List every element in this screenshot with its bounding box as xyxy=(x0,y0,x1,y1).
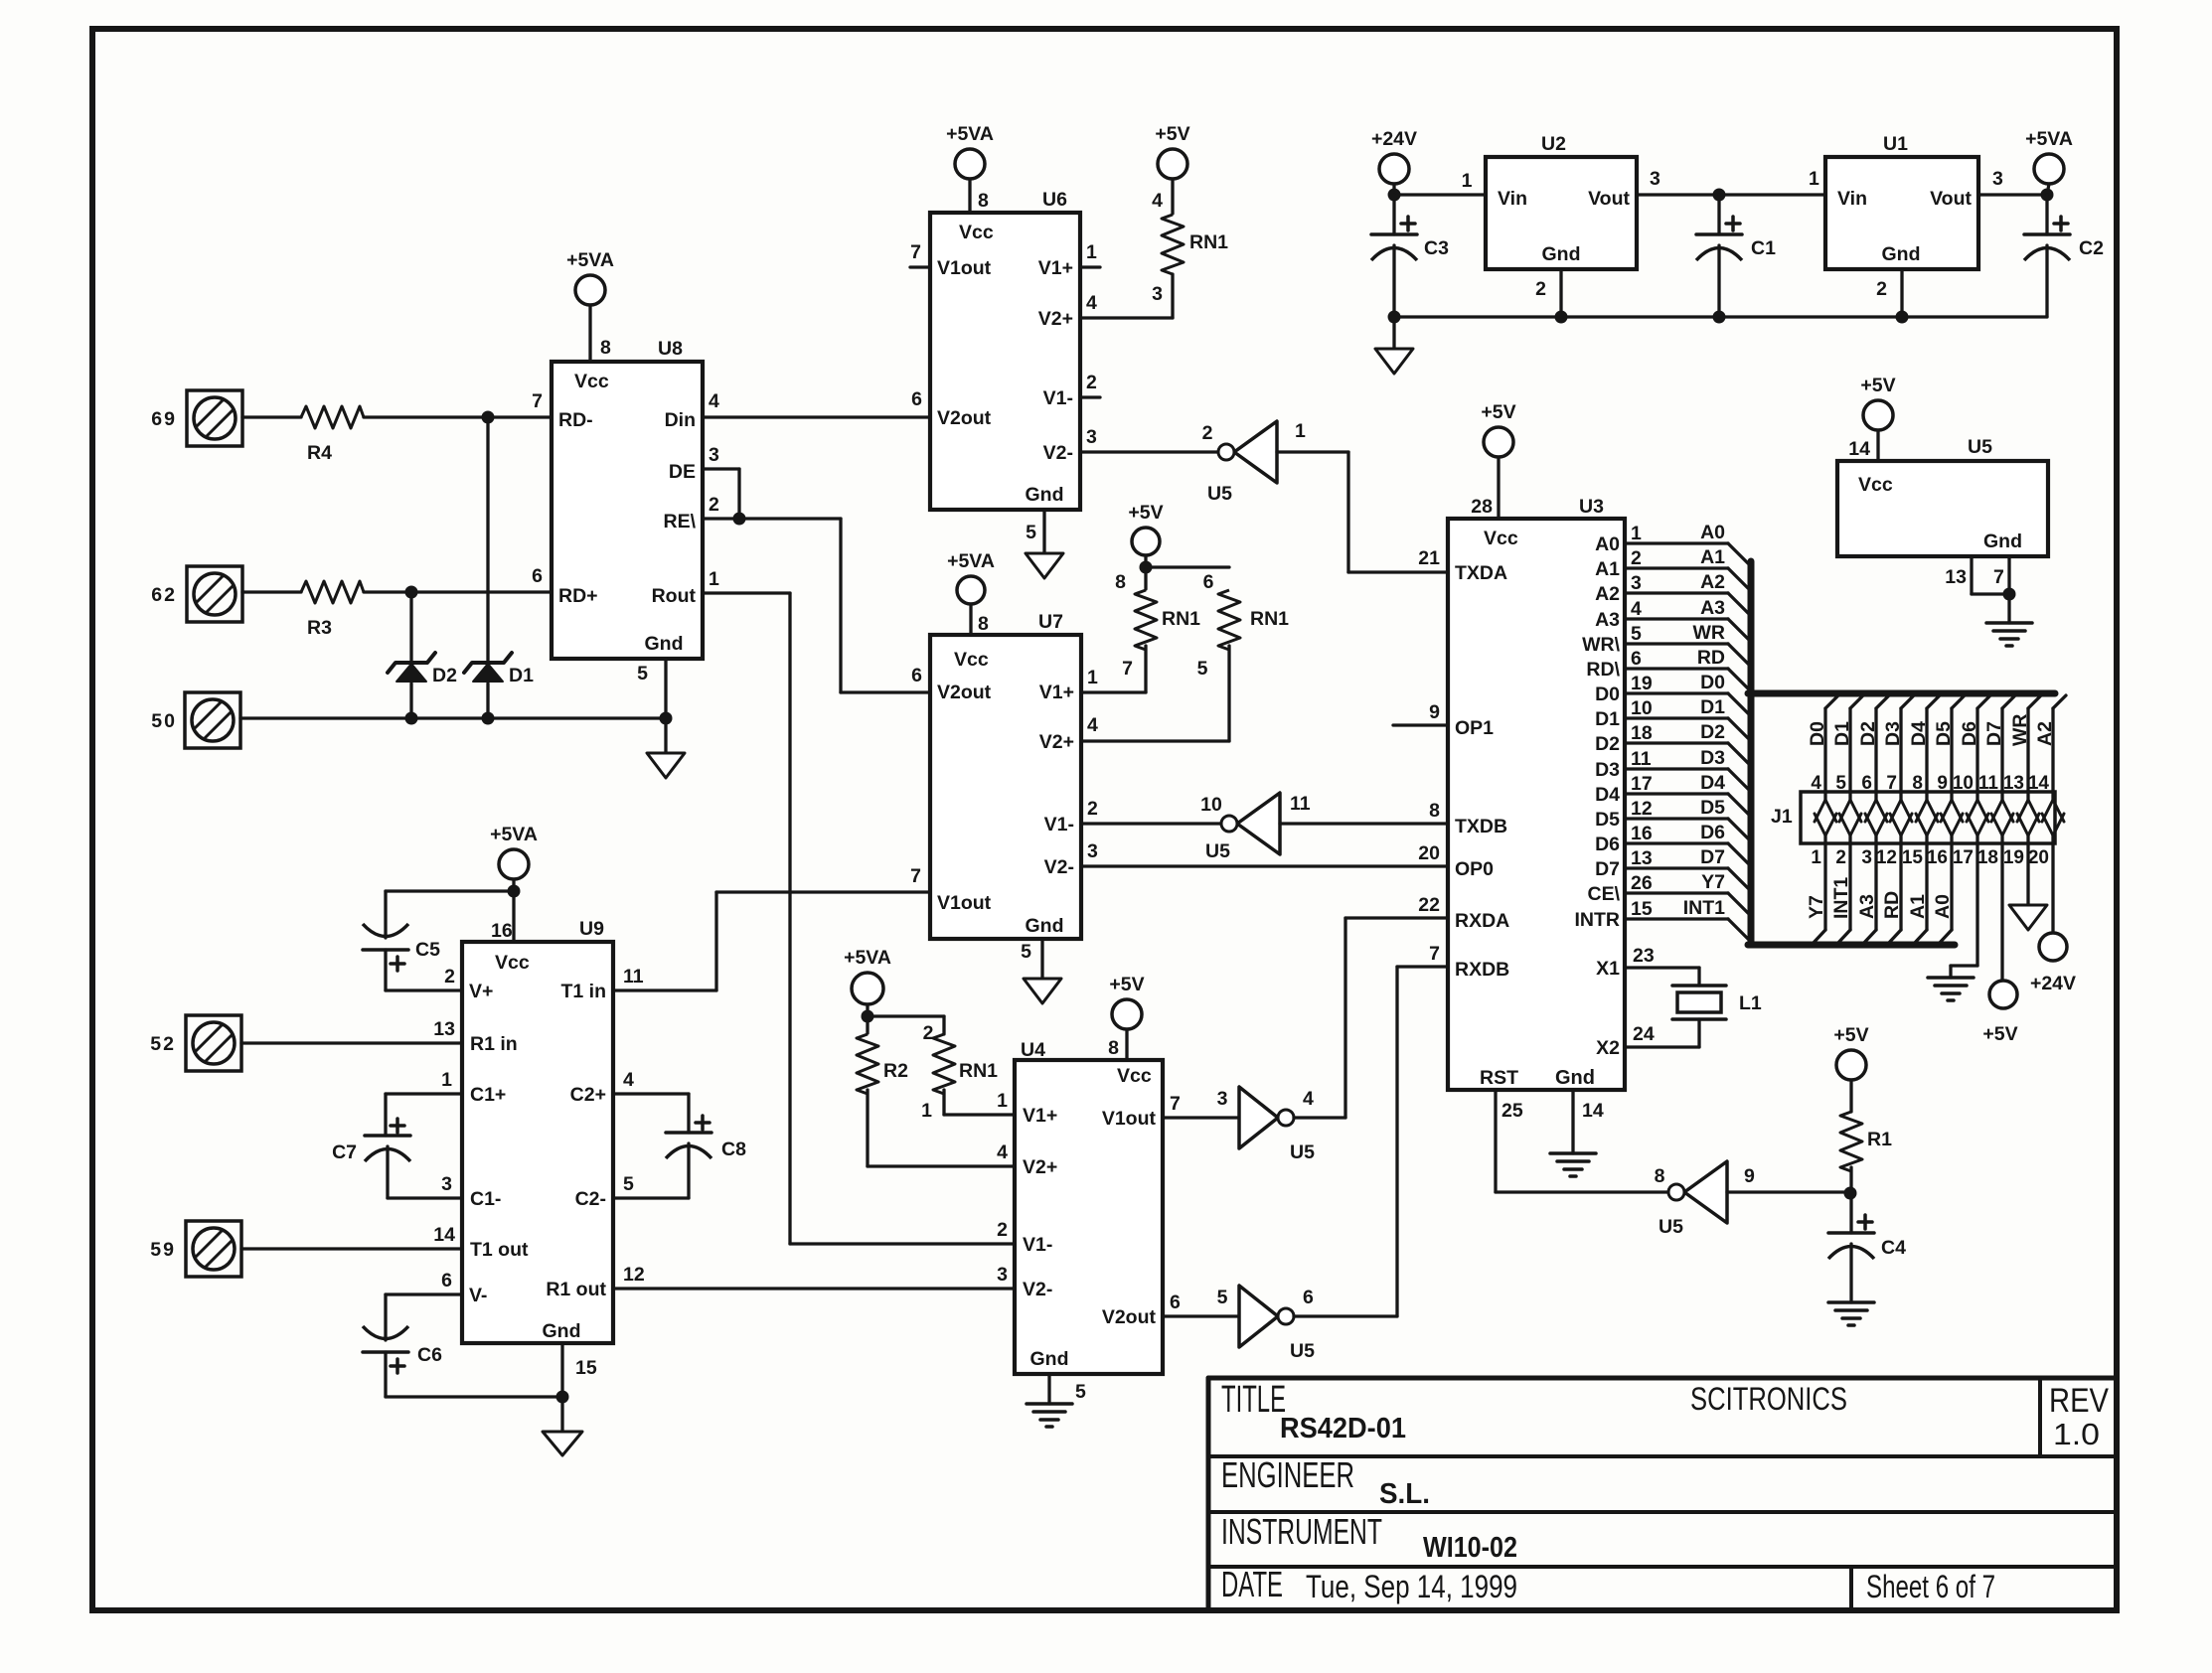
svg-text:RD+: RD+ xyxy=(558,585,598,607)
svg-text:L1: L1 xyxy=(1739,992,1762,1014)
svg-text:Gnd: Gnd xyxy=(645,633,684,655)
svg-text:D2: D2 xyxy=(1595,733,1620,755)
IC U4 optocoupler xyxy=(1015,1060,1163,1374)
svg-text:5: 5 xyxy=(1217,1287,1228,1308)
J1 pin 19 wire to ground xyxy=(2026,843,2029,905)
svg-text:1: 1 xyxy=(1462,170,1473,192)
node D2 bottom xyxy=(405,712,418,725)
svg-text:23: 23 xyxy=(1633,945,1655,967)
node DE-RE junction xyxy=(733,513,746,526)
svg-text:A2: A2 xyxy=(1595,583,1620,605)
J1 bottom bus wire xyxy=(1748,942,1955,949)
svg-text:V1-: V1- xyxy=(1043,387,1073,409)
svg-text:16: 16 xyxy=(1927,847,1948,868)
svg-text:D4: D4 xyxy=(1908,721,1930,746)
svg-text:D4: D4 xyxy=(1595,784,1620,806)
svg-text:4: 4 xyxy=(709,390,719,412)
U9 C1+ pin 1 wire xyxy=(386,1092,462,1095)
J1 contact pair column 7 xyxy=(1975,792,1978,800)
svg-text:U5: U5 xyxy=(1290,1340,1315,1362)
svg-text:2: 2 xyxy=(709,494,719,516)
svg-text:2: 2 xyxy=(997,1219,1008,1241)
U6 V1+ pin 1 stub xyxy=(1080,265,1100,268)
U7 V1out pin 7 wire to U9 T1in xyxy=(716,890,930,893)
svg-text:RD: RD xyxy=(1697,647,1725,669)
svg-text:5: 5 xyxy=(623,1173,634,1195)
U9 V+ pin 2 wire xyxy=(386,989,462,991)
svg-text:Vcc: Vcc xyxy=(574,371,609,392)
svg-text:11: 11 xyxy=(1631,748,1652,770)
U8 RE\ pin 2 wire to U7 V2out xyxy=(703,517,841,520)
inverter U5 (pins 5-6) xyxy=(1239,1286,1278,1347)
capacitor C8 xyxy=(696,1121,710,1125)
svg-text:7: 7 xyxy=(910,865,921,887)
wire inverter2 input from U3 TXDB xyxy=(1280,822,1448,825)
capacitor C3 xyxy=(1392,195,1395,234)
svg-text:3: 3 xyxy=(1087,840,1098,862)
svg-text:1: 1 xyxy=(997,1090,1008,1112)
svg-text:D0: D0 xyxy=(1807,721,1828,746)
svg-text:U2: U2 xyxy=(1541,133,1566,155)
svg-text:R4: R4 xyxy=(307,442,332,464)
svg-text:6: 6 xyxy=(1203,571,1214,593)
ground symbol below U8 xyxy=(647,753,685,778)
node R2 junction xyxy=(862,1010,874,1023)
svg-text:INT1: INT1 xyxy=(1683,897,1725,919)
U8 DE pin 3 wire xyxy=(703,467,739,470)
node rail-U2gnd xyxy=(1555,311,1568,324)
svg-text:A0: A0 xyxy=(1700,522,1725,543)
svg-text:5: 5 xyxy=(1631,623,1642,645)
U3 pin 4 wire (net A3) xyxy=(1625,617,1728,620)
U3 X1 pin 23 wire xyxy=(1625,966,1699,969)
J1 pin 13 drop wire (net WR) xyxy=(2028,695,2041,708)
J1 pin 16 wire to bus (net A0) xyxy=(1950,843,1953,930)
title block REV divider xyxy=(2038,1378,2042,1456)
svg-text:DE: DE xyxy=(669,461,696,483)
svg-text:D0: D0 xyxy=(1700,672,1725,693)
svg-text:22: 22 xyxy=(1418,894,1440,916)
svg-text:13: 13 xyxy=(433,1018,455,1040)
wire U1 Vout to +5VA xyxy=(1978,193,2047,196)
wire +5V to U4 Vcc pin 8 xyxy=(1125,1029,1128,1060)
svg-text:TITLE: TITLE xyxy=(1221,1379,1286,1421)
svg-text:1: 1 xyxy=(921,1100,932,1122)
svg-text:C6: C6 xyxy=(417,1344,442,1366)
capacitor C1 xyxy=(1717,195,1720,234)
terminal 62 xyxy=(187,566,242,622)
wire +5V to U5 Vcc pin 14 xyxy=(1876,430,1879,461)
svg-text:V+: V+ xyxy=(469,981,493,1002)
svg-text:Vcc: Vcc xyxy=(959,222,994,243)
U3 pin 18 wire (net D2) xyxy=(1625,741,1728,744)
J1 contact pair column 4 xyxy=(1899,792,1902,800)
voltage regulator U2 xyxy=(1486,157,1637,269)
crystal L1 xyxy=(1672,984,1726,988)
node U8 gnd junction xyxy=(660,712,673,725)
J1 contact pair column 2 xyxy=(1848,792,1851,800)
svg-text:A0: A0 xyxy=(1932,894,1954,919)
svg-text:A1: A1 xyxy=(1700,546,1725,568)
svg-text:2: 2 xyxy=(444,966,455,988)
node RN1 pair junction xyxy=(1140,561,1153,574)
resistor R4 xyxy=(301,406,364,428)
svg-text:+5V: +5V xyxy=(1109,974,1144,995)
svg-text:52: 52 xyxy=(150,1033,176,1055)
svg-text:Vcc: Vcc xyxy=(1117,1065,1152,1087)
ground symbol below U4 xyxy=(1027,1402,1072,1406)
svg-text:5: 5 xyxy=(1021,941,1031,963)
svg-text:16: 16 xyxy=(1631,823,1653,844)
J1 pin 14 drop wire (net A2) xyxy=(2053,695,2066,708)
J1 contact pair column 5 xyxy=(1925,792,1928,800)
U5 pin 7 wire to ground xyxy=(2007,556,2010,623)
U3 pin 3 wire (net A2) xyxy=(1625,591,1728,594)
title block frame xyxy=(1206,1378,1211,1609)
svg-text:RXDA: RXDA xyxy=(1455,910,1509,932)
svg-text:U5: U5 xyxy=(1659,1216,1683,1238)
U3 X2 pin 24 wire xyxy=(1625,1045,1699,1048)
svg-text:1: 1 xyxy=(709,568,719,590)
wire RN1 bottom to U4 V1+ pin 1 xyxy=(944,1113,1015,1116)
svg-text:RXDB: RXDB xyxy=(1455,959,1509,981)
svg-text:C1: C1 xyxy=(1751,237,1776,259)
power symbol +5V above RN1 (U6) xyxy=(1158,149,1187,179)
svg-text:10: 10 xyxy=(1631,697,1653,719)
svg-text:+5V: +5V xyxy=(1982,1023,2017,1045)
svg-text:Vout: Vout xyxy=(1930,188,1972,210)
svg-text:3: 3 xyxy=(1631,572,1642,594)
ground symbol below U9 xyxy=(543,1432,582,1455)
svg-text:C4: C4 xyxy=(1881,1237,1906,1259)
svg-text:INSTRUMENT: INSTRUMENT xyxy=(1221,1511,1382,1552)
svg-text:Gnd: Gnd xyxy=(1882,243,1921,265)
svg-text:Vcc: Vcc xyxy=(1484,528,1518,549)
svg-text:+5VA: +5VA xyxy=(947,550,995,572)
U3 pin 5 wire (net WR) xyxy=(1625,642,1728,645)
svg-text:A3: A3 xyxy=(1595,609,1620,631)
svg-text:R2: R2 xyxy=(883,1060,908,1082)
power symbol +24V (J1 pin 20) xyxy=(2039,933,2067,961)
svg-text:Vcc: Vcc xyxy=(954,649,989,671)
U9 C2- pin 5 wire xyxy=(613,1196,689,1199)
inverter U5 (pins 2-1) xyxy=(1234,421,1277,483)
wire terminal62 to R3 xyxy=(242,590,301,593)
svg-text:8: 8 xyxy=(1115,571,1126,593)
power symbol +5VA above U6 xyxy=(955,149,985,179)
wire inverter1 output to U3 TXDA xyxy=(1277,450,1348,453)
J1 pin 1 wire to bus (net Y7) xyxy=(1823,843,1826,930)
node D2 top junction xyxy=(405,586,418,599)
U3 pin 16 wire (net D6) xyxy=(1625,841,1728,844)
J1 pin 5 drop wire (net D1) xyxy=(1850,695,1863,708)
U9 C2+ pin 4 wire xyxy=(613,1092,689,1095)
svg-text:4: 4 xyxy=(1303,1088,1314,1110)
J1 pin 15 wire to bus (net A1) xyxy=(1925,843,1928,930)
svg-text:2: 2 xyxy=(1876,278,1887,300)
title block sheet divider xyxy=(1849,1567,1853,1609)
svg-text:17: 17 xyxy=(1953,847,1974,868)
node U5 gnd junction xyxy=(2003,588,2016,601)
svg-text:Vcc: Vcc xyxy=(1858,474,1893,496)
J1 pin 4 drop wire (net D0) xyxy=(1825,695,1838,708)
svg-text:V1out: V1out xyxy=(1102,1108,1157,1130)
inverter U5 (pins 10-11) xyxy=(1237,793,1280,854)
svg-text:D5: D5 xyxy=(1700,797,1725,819)
svg-text:U5: U5 xyxy=(1207,483,1232,505)
svg-text:D4: D4 xyxy=(1700,772,1725,794)
J1 pin 9 drop wire (net D5) xyxy=(1952,695,1965,708)
node D1 top junction xyxy=(482,411,495,424)
capacitor C2 xyxy=(2045,195,2048,234)
node C2 top xyxy=(2041,189,2054,202)
svg-text:3: 3 xyxy=(1650,168,1660,190)
svg-text:T1 in: T1 in xyxy=(560,981,606,1002)
svg-text:U1: U1 xyxy=(1883,133,1908,155)
svg-text:8: 8 xyxy=(1655,1165,1665,1187)
svg-text:Gnd: Gnd xyxy=(1026,484,1064,506)
svg-text:V1+: V1+ xyxy=(1039,682,1074,703)
IC U8 RS-485 transceiver xyxy=(552,362,703,659)
U7 V1+ pin 1 wire xyxy=(1081,690,1146,693)
svg-text:D1: D1 xyxy=(1595,708,1620,730)
svg-text:D1: D1 xyxy=(509,665,534,686)
svg-text:+5V: +5V xyxy=(1833,1024,1868,1046)
svg-text:DATE: DATE xyxy=(1221,1564,1283,1604)
resistor RN1 (pins 6-5) xyxy=(1146,565,1229,568)
svg-text:WI10-02: WI10-02 xyxy=(1423,1532,1517,1564)
svg-text:1: 1 xyxy=(1809,168,1819,190)
svg-text:U9: U9 xyxy=(579,918,604,940)
svg-text:9: 9 xyxy=(1429,701,1440,723)
power symbol +5VA (top right) xyxy=(2034,154,2064,184)
svg-text:D7: D7 xyxy=(1700,846,1725,868)
svg-text:2: 2 xyxy=(1631,547,1642,569)
svg-text:4: 4 xyxy=(1631,598,1642,620)
svg-text:3: 3 xyxy=(1086,426,1097,448)
svg-text:D7: D7 xyxy=(1595,858,1620,880)
power symbol +5VA above U7 xyxy=(957,576,985,604)
svg-text:28: 28 xyxy=(1471,496,1493,518)
svg-text:2: 2 xyxy=(1087,798,1098,820)
svg-text:+5VA: +5VA xyxy=(946,123,994,145)
svg-text:6: 6 xyxy=(1631,648,1642,670)
svg-text:C5: C5 xyxy=(415,939,440,961)
J1 top bus wire xyxy=(1748,690,2055,697)
svg-text:17: 17 xyxy=(1631,773,1653,795)
svg-text:V1+: V1+ xyxy=(1023,1105,1057,1127)
node C1 top xyxy=(1713,189,1726,202)
svg-text:CE\: CE\ xyxy=(1587,883,1620,905)
svg-text:7: 7 xyxy=(1170,1093,1181,1115)
svg-text:C2: C2 xyxy=(2079,237,2104,259)
J1 pin 18 wire to +5V xyxy=(2000,843,2003,981)
svg-text:D6: D6 xyxy=(1959,721,1980,746)
svg-text:2: 2 xyxy=(1086,372,1097,393)
U6 Gnd pin 5 wire xyxy=(1042,510,1045,553)
U3 pin 26 wire (net Y7) xyxy=(1625,891,1728,894)
svg-text:+5V: +5V xyxy=(1860,375,1895,396)
svg-text:8: 8 xyxy=(1108,1037,1119,1059)
svg-text:V2out: V2out xyxy=(937,407,992,429)
svg-text:26: 26 xyxy=(1631,872,1653,894)
svg-text:D7: D7 xyxy=(1983,721,2005,746)
resistor R1 xyxy=(1849,1080,1852,1112)
svg-text:D3: D3 xyxy=(1595,759,1620,781)
J1 pin 2 wire to bus (net INT1) xyxy=(1848,843,1851,930)
svg-text:12: 12 xyxy=(1876,847,1897,868)
node rail-C3 xyxy=(1388,311,1401,324)
svg-text:9: 9 xyxy=(1744,1165,1755,1187)
svg-text:4: 4 xyxy=(1086,292,1097,314)
U3 pin 1 wire (net A0) xyxy=(1625,541,1728,544)
svg-text:D1: D1 xyxy=(1831,721,1853,746)
wire terminal59 to U9 T1out pin 14 xyxy=(241,1247,462,1250)
U8 Rout pin 1 wire to U4 V1- xyxy=(703,591,790,594)
svg-text:20: 20 xyxy=(1418,842,1440,864)
svg-text:+5VA: +5VA xyxy=(490,824,538,845)
voltage regulator U1 xyxy=(1825,157,1978,269)
svg-text:7: 7 xyxy=(1122,658,1133,680)
U3 pin 2 wire (net A1) xyxy=(1625,566,1728,569)
svg-text:A1: A1 xyxy=(1907,894,1929,919)
svg-text:3: 3 xyxy=(1217,1088,1228,1110)
svg-text:Vout: Vout xyxy=(1588,188,1630,210)
svg-text:4: 4 xyxy=(623,1069,634,1091)
svg-text:14: 14 xyxy=(433,1224,455,1246)
IC U5 power pins box xyxy=(1837,461,2048,556)
svg-text:5: 5 xyxy=(1026,522,1036,543)
power symbol +5V above U5 box xyxy=(1863,400,1893,430)
terminal 69 xyxy=(187,390,242,446)
svg-text:7: 7 xyxy=(532,390,543,412)
svg-text:RN1: RN1 xyxy=(959,1060,998,1082)
U6 V2- pin 3 wire to inverter U5 xyxy=(1080,450,1218,453)
svg-text:X1: X1 xyxy=(1596,958,1620,980)
ground symbol below U5 box xyxy=(1986,621,2032,625)
svg-text:D2: D2 xyxy=(1857,721,1879,746)
svg-text:V2out: V2out xyxy=(937,682,992,703)
U4 Gnd pin 5 wire xyxy=(1047,1374,1050,1404)
zener diode D1 xyxy=(486,417,489,663)
ground symbol J1 pin 17 xyxy=(1928,976,1974,980)
J1 pin 20 wire to +24V xyxy=(2051,843,2054,933)
connector J1 body xyxy=(1801,792,2055,843)
svg-text:6: 6 xyxy=(1303,1287,1314,1308)
svg-text:C7: C7 xyxy=(332,1141,357,1163)
svg-text:21: 21 xyxy=(1418,547,1440,569)
svg-text:8: 8 xyxy=(978,190,989,212)
svg-text:12: 12 xyxy=(1631,798,1653,820)
svg-text:RN1: RN1 xyxy=(1250,608,1289,630)
svg-text:INTR: INTR xyxy=(1575,909,1621,931)
svg-text:15: 15 xyxy=(575,1357,597,1379)
U9 V- pin 6 wire xyxy=(386,1293,462,1295)
svg-text:V2+: V2+ xyxy=(1038,308,1073,330)
svg-text:3: 3 xyxy=(1152,283,1163,305)
power symbol +5V above R1 xyxy=(1836,1050,1866,1080)
wire R4 to U8 RD- pin7 xyxy=(364,415,552,418)
svg-text:C8: C8 xyxy=(721,1139,746,1160)
svg-text:7: 7 xyxy=(1429,943,1440,965)
svg-text:7: 7 xyxy=(910,241,921,263)
svg-text:A2: A2 xyxy=(2034,721,2056,746)
power symbol +24V (top) xyxy=(1379,154,1409,184)
U6 V1- pin 2 stub xyxy=(1080,395,1100,398)
svg-text:S.L.: S.L. xyxy=(1379,1478,1430,1510)
svg-text:RN1: RN1 xyxy=(1162,608,1200,630)
wire +5V to U3 Vcc pin 28 xyxy=(1497,457,1500,519)
svg-text:Gnd: Gnd xyxy=(1542,243,1581,265)
svg-text:+24V: +24V xyxy=(2030,973,2076,994)
svg-text:U5: U5 xyxy=(1290,1141,1315,1163)
svg-text:6: 6 xyxy=(911,388,922,410)
power symbol +5V above RN1 pair xyxy=(1132,528,1160,555)
svg-text:69: 69 xyxy=(151,408,177,430)
svg-text:11: 11 xyxy=(1290,793,1311,815)
svg-text:3: 3 xyxy=(997,1264,1008,1286)
svg-text:WR\: WR\ xyxy=(1582,634,1620,656)
svg-text:V2out: V2out xyxy=(1102,1306,1157,1328)
svg-text:D3: D3 xyxy=(1700,747,1725,769)
U5 pin 13 stub xyxy=(1970,556,1973,594)
J1 pin 10 drop wire (net D6) xyxy=(1977,695,1990,708)
svg-text:3: 3 xyxy=(441,1173,452,1195)
svg-text:Din: Din xyxy=(665,409,696,431)
U3 pin 19 wire (net D0) xyxy=(1625,691,1728,694)
svg-text:RD-: RD- xyxy=(558,409,593,431)
wire +5VA to U6 Vcc pin 8 xyxy=(968,179,971,213)
svg-text:WR: WR xyxy=(1693,622,1726,644)
wire +5VA to R2/RN1 xyxy=(866,1004,869,1033)
terminal 52 xyxy=(186,1015,241,1071)
svg-text:TXDB: TXDB xyxy=(1455,816,1507,837)
svg-text:+5VA: +5VA xyxy=(2025,128,2073,150)
J1 contact pair column 10 xyxy=(2051,792,2054,800)
resistor R3 xyxy=(301,581,364,603)
terminal 59 xyxy=(186,1221,241,1277)
ground symbol below C3 xyxy=(1392,317,1395,349)
svg-text:R1 in: R1 in xyxy=(470,1033,518,1055)
wire R2 bottom to U4 V2+ pin 4 xyxy=(868,1164,1015,1167)
svg-text:U5: U5 xyxy=(1968,436,1992,458)
ground symbol below C4 xyxy=(1828,1300,1874,1304)
svg-text:10: 10 xyxy=(1200,794,1222,816)
capacitor C6 xyxy=(363,1350,408,1354)
svg-text:REV: REV xyxy=(2049,1382,2109,1420)
svg-text:8: 8 xyxy=(600,337,611,359)
svg-text:7: 7 xyxy=(1993,566,2004,588)
svg-text:WR: WR xyxy=(2009,714,2031,747)
svg-text:V2+: V2+ xyxy=(1023,1156,1057,1178)
svg-text:ENGINEER: ENGINEER xyxy=(1221,1454,1354,1495)
svg-text:INT1: INT1 xyxy=(1830,877,1852,919)
svg-text:C2-: C2- xyxy=(575,1188,606,1210)
ground symbol below U7 xyxy=(1024,979,1061,1003)
svg-text:V1+: V1+ xyxy=(1038,257,1073,279)
J1 pin 3 wire to bus (net A3) xyxy=(1874,843,1877,930)
svg-text:D5: D5 xyxy=(1933,721,1955,746)
ground symbol below U3 xyxy=(1550,1151,1596,1155)
U6 V2+ pin 4 wire to RN1 xyxy=(1080,316,1173,319)
svg-text:A2: A2 xyxy=(1700,571,1725,593)
U3 pin 12 wire (net D5) xyxy=(1625,817,1728,820)
J1 contact pair column 9 xyxy=(2026,792,2029,800)
svg-text:RD: RD xyxy=(1881,891,1903,919)
J1 pin 17 wire to ground xyxy=(1975,843,1978,966)
ground rail wire (power section) xyxy=(1394,315,2047,318)
svg-text:1: 1 xyxy=(1086,241,1097,263)
